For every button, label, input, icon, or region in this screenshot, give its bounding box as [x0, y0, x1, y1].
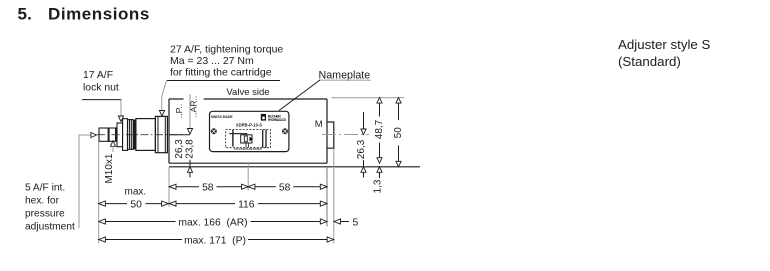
body bottom edge: [169, 162, 327, 164]
svg-text:48,7: 48,7: [374, 119, 385, 139]
cartridge: dark collar: [133, 120, 136, 150]
leader M10x1: [104, 141, 116, 184]
svg-text:Ma = 23 ... 27 Nm: Ma = 23 ... 27 Nm: [170, 55, 254, 67]
dim 5: [334, 217, 359, 228]
leader Nameplate: [279, 80, 320, 111]
centerline left (cartridge axis): [97, 134, 183, 136]
svg-text:adjustment: adjustment: [25, 222, 75, 233]
mounting face line (1,3 offset): [169, 166, 420, 168]
ext left end: [98, 142, 100, 244]
cartridge: hex 27 A/F: [155, 116, 167, 152]
dim 26,3 (right): [356, 112, 367, 178]
svg-text:..P..: ..P..: [174, 104, 184, 118]
ext 58 mid: [247, 162, 249, 191]
dim 48,7 (right): [374, 98, 385, 164]
svg-text:M: M: [315, 119, 323, 130]
ext top right: [332, 97, 405, 99]
label: Adjuster style S (Standard): [618, 37, 711, 69]
body right edge: [326, 99, 328, 163]
nameplate screw left: [211, 128, 217, 134]
body top edge (broken around port texts): [169, 98, 184, 100]
svg-text:50: 50: [393, 127, 404, 139]
svg-text:Valve side: Valve side: [226, 87, 269, 98]
nameplate schematic valve arrow: [244, 136, 253, 142]
leader 27 A/F: [159, 81, 166, 117]
dim 1,3 (right): [372, 167, 383, 194]
svg-text:5 A/F int.: 5 A/F int.: [25, 183, 65, 194]
extension lines (gray): [99, 98, 405, 244]
label: Nameplate: [319, 70, 372, 82]
svg-text:pressure: pressure: [25, 209, 65, 220]
cartridge: lock nut discs: [117, 119, 133, 151]
body left edge: [168, 99, 170, 163]
M port: [327, 122, 334, 148]
svg-text:Dimensions: Dimensions: [48, 5, 150, 24]
svg-text:lock nut: lock nut: [83, 83, 119, 94]
valve body: [169, 99, 420, 167]
nameplate schematic double lines: [263, 130, 266, 148]
svg-text:58: 58: [202, 183, 214, 194]
dim row 50 | 116: [99, 198, 327, 211]
nameplate screw right: [282, 128, 288, 134]
dim 50 (right): [393, 98, 404, 167]
svg-text:HYDRAULICS: HYDRAULICS: [268, 118, 287, 122]
svg-text:max.: max.: [125, 187, 147, 198]
leader 5 A/F: [25, 132, 96, 232]
svg-text:5: 5: [353, 217, 359, 228]
svg-text:27 A/F, tightening torque: 27 A/F, tightening torque: [170, 44, 283, 56]
dim row max. 166 (AR): [99, 216, 327, 229]
svg-text:116: 116: [238, 199, 255, 210]
svg-text:SWISS MADE: SWISS MADE: [211, 115, 234, 119]
svg-text:(Standard): (Standard): [618, 54, 681, 69]
svg-text:max. 166 (AR): max. 166 (AR): [178, 217, 247, 228]
svg-text:1,3: 1,3: [372, 179, 383, 193]
svg-text:Adjuster style S: Adjuster style S: [618, 37, 711, 52]
svg-text:17 A/F: 17 A/F: [83, 70, 113, 81]
ext nose right: [333, 149, 335, 244]
svg-text:26,3: 26,3: [356, 139, 367, 159]
svg-text:5.: 5.: [18, 5, 33, 24]
svg-text:23,8: 23,8: [185, 139, 196, 159]
dim row 58 | 58: [169, 186, 327, 188]
centerline right (M port axis): [322, 134, 369, 136]
svg-text:hex. for: hex. for: [25, 196, 60, 207]
svg-text:M10x1: M10x1: [104, 153, 115, 183]
nameplate outline: [210, 111, 289, 151]
label: 17 A/F lock nut: [82, 70, 122, 100]
svg-text:50: 50: [130, 199, 142, 210]
nameplate schematic box: [226, 130, 271, 148]
label: 27 A/F tightening torque: [167, 44, 283, 81]
dim text 23,8 (left): [186, 139, 196, 160]
svg-text:for fitting the cartridge: for fitting the cartridge: [170, 67, 272, 79]
ext body right: [326, 167, 328, 227]
cartridge: adjustment screw: [99, 128, 117, 141]
svg-text:26,3: 26,3: [174, 139, 185, 159]
leader 17 A/F: [118, 100, 123, 122]
dim row max. 171 (P): [99, 234, 334, 247]
svg-text:MAX PRESSURE 350 BAR: MAX PRESSURE 350 BAR: [234, 147, 262, 151]
dim 26,3 / 23,8 line (left): [169, 94, 193, 178]
svg-text:max. 171 (P): max. 171 (P): [184, 235, 246, 246]
nameplate logo: [261, 114, 287, 122]
svg-text:58: 58: [279, 183, 291, 194]
cartridge: main cylinder: [136, 119, 156, 151]
ext body left: [168, 167, 170, 207]
title: [18, 5, 150, 24]
svg-text:XDRB-P-10-S: XDRB-P-10-S: [236, 122, 262, 127]
